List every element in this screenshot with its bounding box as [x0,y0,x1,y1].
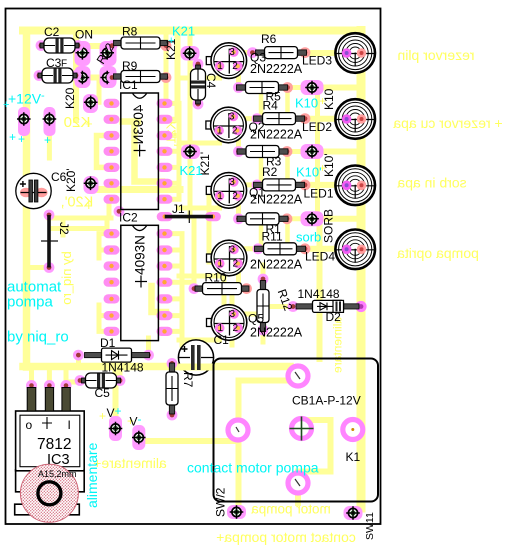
svg-text:4093N: 4093N [131,105,146,145]
wire inter-row connectors [276,88,288,249]
transistor Q5 [207,305,247,341]
node K10' label vertical [322,153,336,177]
resistor R12 pads [258,274,269,285]
SILK [6,9,381,525]
resistor R7 pads [167,358,178,369]
svg-text:LED1: LED1 [304,187,334,201]
wire R1 to SORB [287,216,315,221]
svg-text:rezervor plin: rezervor plin [397,47,474,63]
node pad4 [100,71,114,85]
capacitor C6 [16,173,51,208]
wire left bus [23,31,31,368]
CYANTEXT [3,24,322,509]
mounting hole hatched [20,464,78,522]
diode D2 [296,300,359,312]
LED1 lamp [335,166,375,206]
wire bottom bus [23,363,290,371]
svg-text:K21: K21 [180,163,203,178]
wire IC1 left bus [97,136,106,168]
svg-text:V: V [107,406,115,420]
resistor R10 pads [189,283,200,294]
wire relay left column to SW2 [236,381,242,513]
svg-text:4093N: 4093N [133,235,148,275]
svg-text:IC2: IC2 [119,211,138,225]
transistor Q4 [207,240,247,276]
wire LED2 row [305,116,344,122]
svg-text:K20: K20 [63,87,77,109]
resistor R12 [257,281,269,332]
wire h46 [44,43,110,49]
svg-text:+: + [9,130,16,144]
node via pad [114,206,125,217]
node K20 mirrored label [64,114,91,131]
svg-text:sorb: sorb [296,230,321,245]
node K30 pad [17,112,31,126]
svg-text:+12V: +12V [8,91,42,107]
wire IC1 right bus [172,103,179,199]
svg-text:SW/2: SW/2 [214,487,228,517]
resistor R4 pads [252,113,263,124]
svg-text:D1: D1 [100,336,116,350]
LED2 lamp [335,99,375,139]
wire h77 [42,75,110,81]
capacitor C4 pads [193,59,204,70]
relay K1 right pad [343,420,363,440]
node K10 label vertical [322,88,336,110]
relay K1 top pad [288,366,308,386]
resistor R1 [237,213,288,225]
jumper J1 pads [157,212,173,221]
node V+ pad [109,422,123,436]
svg-text:2N2222A: 2N2222A [250,128,303,142]
svg-text:1N4148: 1N4148 [298,287,340,301]
wire J2 top [49,199,111,235]
wire K10' row to bus [315,149,361,155]
svg-text:LED2: LED2 [302,120,332,134]
node pad2 [100,46,114,60]
svg-text:+: + [18,132,25,146]
svg-text:J2: J2 [57,222,71,235]
wire D1 stubs [79,338,149,367]
wire Q5 stubs [179,314,256,340]
resistor R5 pads [233,82,244,93]
svg-text:R7: R7 [181,372,195,388]
node K20' mirrored label [61,195,94,211]
wire LED1 row [305,182,344,188]
svg-text:sorb in apa: sorb in apa [397,175,466,191]
svg-text:by niq_ro: by niq_ro [59,251,74,304]
node K20b pad [84,176,99,194]
wire relay right stub [353,427,361,433]
node K21 label vertical [164,38,178,60]
svg-text:R11: R11 [262,230,283,244]
wire K10 row to bus [315,85,361,91]
svg-text:C2: C2 [44,25,60,39]
svg-text:+: + [85,198,93,213]
node SW11 pad [346,506,360,520]
relay K1 bottom pad [288,473,308,493]
resistor R6 [256,47,307,59]
resistor R8 [114,37,168,49]
svg-text:7812: 7812 [37,436,71,453]
capacitor C2 pads [36,40,47,51]
svg-text:motor pompa: motor pompa [251,502,331,517]
wire mid verticals [182,195,232,345]
svg-text:SW11: SW11 [364,512,376,540]
wire relay top pad feed [287,367,293,377]
svg-text:-: - [41,90,45,102]
PADS [17,40,367,520]
wire v177 [175,30,181,120]
resistor R2 pads [252,180,263,191]
relay K1 center pad [290,417,314,441]
node K21' pad [183,145,197,159]
wire under IC1 bottom [100,186,180,193]
resistor R3 [237,146,288,158]
node rezervor cu apa mirrored [393,115,503,131]
resistor R3 pads [233,146,244,157]
wire R12 stubs [261,265,266,342]
node K20 pad [84,96,98,110]
svg-text:alimentare+: alimentare+ [93,455,167,471]
node SW11 label vertical [364,512,376,540]
svg-text:CB1A-P-12V: CB1A-P-12V [292,394,361,408]
wire V- feed [139,438,238,442]
node pad blobs pink [18,41,363,520]
node motor pompa mirrored [251,502,331,517]
wire top bus [23,27,361,35]
wire under IC1 [123,122,163,182]
wire R5 to K10 [288,85,315,90]
wire v166 [164,30,169,103]
svg-text:IC3: IC3 [47,452,70,468]
op-amp U1 IC1 body [121,93,159,210]
svg-text:V: V [130,415,138,429]
svg-text:IC1: IC1 [119,78,138,92]
transistor Q1 [206,173,246,209]
svg-text:Q5: Q5 [248,312,264,326]
wire Q4 stubs [179,249,258,289]
TRACES [23,30,361,512]
svg-text:K10: K10 [295,96,318,111]
wire v50 [47,119,52,158]
node SORB pad [305,212,319,226]
svg-text:R6: R6 [261,32,277,46]
resistor R10 [195,283,249,295]
resistor R1 pads [233,213,244,224]
svg-text:by niq_ro: by niq_ro [7,329,69,346]
diode D2 pads [288,301,299,312]
svg-text:I: I [68,418,71,432]
wire K21 column [188,33,193,217]
node pompa oprita mirrored [397,245,479,261]
wire LED3 row [305,50,344,56]
node K21 mirrored vertical [165,121,179,147]
wire Q3 stubs [179,53,252,88]
jumper J2 pads [44,210,55,221]
svg-text:-: - [138,412,142,426]
node K10' pad [305,145,319,159]
svg-text:pompa: pompa [7,294,54,311]
svg-text:R9: R9 [122,59,138,73]
svg-text:D2: D2 [326,310,342,324]
svg-text:K10': K10' [296,165,322,180]
svg-text:R2: R2 [262,165,278,179]
wire SORB row to bus [315,216,361,222]
wire v74 [73,33,79,120]
capacitor C3 [38,68,77,83]
svg-text:+: + [99,409,106,423]
svg-text:R8: R8 [122,25,138,39]
svg-text:2N2222A: 2N2222A [250,326,303,340]
node ON pad [76,46,90,60]
resistor R9 pads [107,72,118,83]
node K10 pad [305,81,319,95]
svg-text:2N2222A: 2N2222A [250,62,303,76]
svg-text:A15,2mm: A15,2mm [38,469,77,479]
svg-text:+: + [168,35,174,47]
LED4 lamp [335,230,375,270]
wire Q2 stubs [179,119,257,152]
svg-text:F: F [61,59,67,70]
svg-text:alimentare: alimentare [84,442,100,508]
wire right bus [357,31,366,509]
jumper J2 [47,215,51,268]
IC2 pin pads [104,229,173,336]
svg-text:contact motor pompa: contact motor pompa [187,460,319,476]
svg-text:+: + [44,133,51,147]
svg-text:2N2222A: 2N2222A [250,192,303,206]
resistor R5 [237,82,288,94]
LED3 lamp [335,33,375,73]
svg-text:J1: J1 [172,202,185,216]
node alimentare mirrored [93,455,167,471]
node K21 pad [183,47,197,61]
regulator IC3 7812 [15,388,85,515]
node SW2 pad [230,505,244,519]
node K30b pad [43,112,57,126]
board outline [6,9,381,525]
svg-text:C5: C5 [95,386,111,400]
node sorb in apa mirrored [397,175,466,191]
capacitor C4 label [204,73,218,89]
op-amp U2 IC2 body [121,225,159,340]
resistor R7 [166,363,178,414]
node K20 label vertical [63,87,77,109]
wire under IC2 [152,286,167,312]
node V- pad [132,431,146,445]
wire 7812 leg stubs [32,367,81,385]
wire LED4 row [305,246,344,252]
svg-text:contact motor pompa+: contact motor pompa+ [216,529,356,545]
svg-text:K10: K10 [322,88,336,110]
resistor R4 [254,113,305,125]
resistor R22 label [94,40,118,66]
wire D2 column [317,219,323,359]
resistor R12 label vertical [275,287,296,313]
svg-text:K10': K10' [322,153,336,177]
capacitor C2 [40,38,79,53]
svg-text:ON: ON [75,28,93,42]
BLACKTEXT [26,25,377,541]
svg-text:o: o [26,418,33,432]
diode D1 [85,348,150,362]
wire R3 to K10' [287,149,315,154]
svg-text:+ rezervor cu apa: + rezervor cu apa [393,115,503,131]
node by niq_ro mirrored vertical [59,251,74,304]
wire K20 elbow [89,78,99,103]
node alimentare sus mirrored vertical [331,317,345,373]
node K21' label vertical [198,152,212,176]
resistor R6 pads [247,47,258,58]
diode D1 pads [73,350,84,361]
wire V+ feed [113,367,119,429]
transistor Q3 [206,43,246,79]
wire J2 bottom [27,265,50,270]
YELLOWTEXT [59,47,503,545]
wire IC2 right bus [172,234,182,345]
wire C4 top feed [190,62,198,67]
resistor R2 [254,179,305,191]
resistor R8 pads [107,40,118,51]
svg-text:R4: R4 [263,99,279,113]
svg-text:LED4: LED4 [305,250,335,264]
wire Q1 stubs [179,185,257,219]
capacitor C5 [82,373,121,388]
wire relay bottom stub [295,483,301,503]
svg-text:alimentare: alimentare [331,317,345,373]
resistor R9 [114,71,168,83]
capacitor C4 [191,65,206,104]
node alimentare label vertical [84,442,100,508]
resistor R11 [255,243,306,255]
svg-text:2N2222A: 2N2222A [250,257,303,271]
svg-text:K21: K21 [172,24,195,39]
node pad3 [76,71,90,85]
capacitor C5 pads [75,375,86,386]
node SW/2 label vertical [214,487,228,517]
wire K column [315,88,320,219]
svg-text:+: + [115,404,122,418]
capacitor C3 pads [34,70,45,81]
node SORB label vertical [322,209,336,243]
svg-text:+: + [3,99,9,111]
resistor R11 pads [253,243,264,254]
svg-text:+: + [85,116,93,131]
svg-text:K1: K1 [346,450,361,464]
svg-text:R10: R10 [205,271,227,285]
svg-text:C4: C4 [204,73,218,89]
IC1 pin pads [104,99,173,204]
relay K1 left pad [228,420,248,440]
svg-text:K20': K20' [64,168,78,192]
jumper J1 [165,215,213,219]
svg-text:C1: C1 [214,333,230,347]
svg-text:SORB: SORB [322,209,336,243]
svg-text:LED3: LED3 [302,54,332,68]
node rezervor plin mirrored [397,47,474,63]
regulator IC3 leg pads [26,380,37,391]
svg-text:1N4148: 1N4148 [102,361,144,375]
wire IC2 left bus [99,234,106,332]
transistor Q2 [206,107,246,143]
wire relay top to left [244,378,293,384]
capacitor C1 [178,340,213,375]
resistor R7 label vertical [181,372,195,388]
node contact motor pompa mirrored [216,529,356,545]
svg-text:pompa oprita: pompa oprita [397,245,479,261]
svg-text:C3: C3 [46,56,62,70]
wire D2 left stub [272,304,293,309]
node K20' label vertical [64,168,78,192]
jumper J2 label [57,222,71,235]
wire C5 right vert [118,367,123,381]
relay K1 outline [214,359,379,502]
wire relay center elbow [298,420,331,472]
